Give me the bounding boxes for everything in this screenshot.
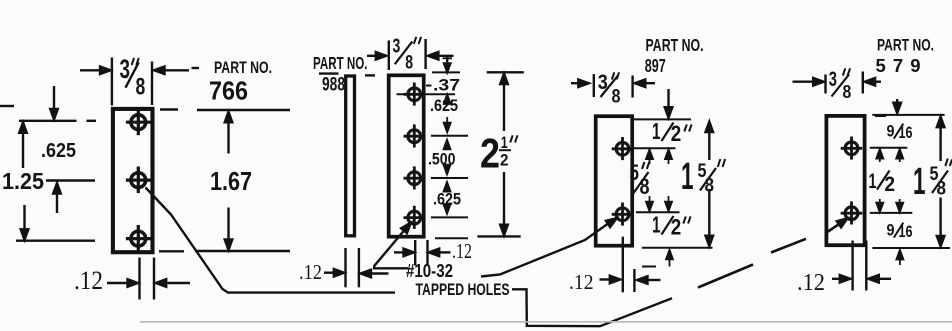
tapped hole 897-1 bbox=[612, 137, 634, 160]
dim 9/16 upper outside arrow bbox=[896, 99, 898, 107]
dim 3/8 right arrow bbox=[437, 55, 454, 57]
dim 3/8 left arrow bbox=[367, 55, 378, 57]
tapped hole 766-2 bbox=[126, 167, 151, 194]
extension dash hole 988-4 bbox=[431, 216, 468, 218]
dim 1.67 bottom extension bbox=[159, 250, 184, 252]
dashed leader segment 2 bbox=[771, 239, 806, 253]
svg-text:1.67: 1.67 bbox=[210, 166, 252, 196]
svg-text:.12: .12 bbox=[299, 260, 322, 284]
dim 3/8 left extension bbox=[388, 41, 390, 71]
svg-text:2: 2 bbox=[885, 172, 896, 196]
tapped hole 579-1 bbox=[841, 137, 863, 160]
svg-text:2: 2 bbox=[500, 152, 509, 170]
dim .12 extension lines below plate 897 bbox=[622, 237, 624, 293]
svg-text:1.25: 1.25 bbox=[2, 168, 44, 194]
dim 3/8 right extension bbox=[631, 76, 633, 98]
svg-text:16: 16 bbox=[899, 222, 913, 241]
plate 579 outline bbox=[826, 116, 864, 245]
dim 1 5/8 vertical arrow line bbox=[708, 130, 710, 160]
extension line hole 897-1 bbox=[629, 147, 676, 149]
svg-text:PART NO.: PART NO. bbox=[877, 37, 934, 55]
dim 1.25 upper arrow bbox=[22, 130, 24, 168]
svg-text:.625: .625 bbox=[430, 97, 458, 115]
plate bottom extension dash bbox=[435, 237, 468, 239]
svg-text:8: 8 bbox=[612, 86, 621, 107]
dim 3/8 right arrow bbox=[163, 69, 189, 71]
svg-text:#10-32: #10-32 bbox=[406, 260, 453, 281]
extension dash hole 988-3 bbox=[431, 177, 468, 179]
svg-text:3: 3 bbox=[829, 68, 837, 91]
svg-text:1: 1 bbox=[681, 156, 694, 198]
dim .625 outside arrow above bbox=[53, 86, 55, 110]
dim .12 extension lines below front plate bbox=[414, 240, 416, 266]
svg-text:PART NO.: PART NO. bbox=[646, 35, 704, 55]
top dash right of plate bbox=[875, 115, 886, 117]
extension line hole 766-2 bbox=[46, 179, 95, 181]
elbow leader from TAPPED HOLES going right and down bbox=[512, 289, 672, 326]
svg-text:1: 1 bbox=[913, 161, 926, 203]
plate top extension line bbox=[432, 71, 460, 73]
dim 2 1/2 vertical arrow line bbox=[503, 81, 505, 131]
top extension line bbox=[872, 114, 944, 116]
dim .625 lower arrows bbox=[444, 183, 450, 192]
dim .625 outside arrow below bbox=[56, 192, 58, 213]
dim 3/8 right arrow bbox=[874, 80, 881, 82]
plate 766 outline bbox=[113, 109, 153, 252]
dim 3/8 right extension line bbox=[151, 62, 153, 106]
svg-text:3: 3 bbox=[393, 35, 401, 58]
dim .12 right arrow bbox=[165, 282, 191, 284]
dim 3/8 right arrow bbox=[644, 82, 655, 84]
arrows below hole1 line bbox=[649, 157, 651, 164]
svg-text:.12: .12 bbox=[797, 270, 825, 296]
plate 988 front view outline bbox=[389, 75, 424, 236]
dim 3/8 left extension bbox=[593, 74, 595, 97]
dim .12 extension lines below strip bbox=[344, 248, 346, 287]
dim 3/8 left extension bbox=[824, 75, 826, 94]
dim 1.25 lower arrow bbox=[23, 205, 25, 232]
extension line hole 579-2 bbox=[870, 212, 913, 214]
bottom extension line bbox=[872, 247, 950, 249]
extension line hole 766-1 bbox=[19, 120, 77, 122]
dim .37 hanging arrow at plate top bbox=[443, 57, 453, 59]
tapped hole 988-3 bbox=[404, 166, 426, 189]
tapped hole 766-3 bbox=[126, 225, 151, 252]
extension dash hole 988-2 bbox=[431, 135, 468, 137]
svg-text:16: 16 bbox=[899, 123, 913, 142]
tapped hole 579-2 bbox=[841, 201, 863, 224]
arrows above hole2 line bbox=[879, 199, 881, 205]
svg-text:PART NO.: PART NO. bbox=[214, 59, 272, 77]
svg-text:8: 8 bbox=[405, 52, 413, 73]
svg-text:.37: .37 bbox=[433, 76, 460, 95]
dim 1.67 vertical arrow line bbox=[227, 120, 229, 154]
dim 3/8 right extension bbox=[424, 39, 426, 69]
dim .12 arrows of front view bbox=[394, 251, 405, 253]
top extension line bbox=[634, 118, 691, 120]
svg-text:TAPPED HOLES: TAPPED HOLES bbox=[416, 280, 510, 299]
dim .12 extension lines below plate 579 bbox=[851, 241, 853, 291]
dim 3/8 trailing dash bbox=[192, 67, 200, 69]
svg-text:8: 8 bbox=[937, 179, 947, 200]
tapped hole 988-1 bbox=[404, 83, 426, 106]
svg-text:988: 988 bbox=[322, 74, 345, 96]
plate 897 outline bbox=[596, 116, 633, 246]
arrows below hole1 line bbox=[879, 157, 881, 163]
tapped hole 988-4 bbox=[404, 206, 426, 229]
svg-text:2: 2 bbox=[671, 121, 682, 146]
dim 2 1/2 bottom extension bbox=[477, 235, 520, 237]
dim 2 1/2 top extension bbox=[487, 71, 524, 73]
svg-text:8: 8 bbox=[640, 174, 650, 199]
svg-text:766: 766 bbox=[209, 76, 248, 106]
top construction dash between views bbox=[365, 74, 375, 76]
bottom faint page line bbox=[140, 321, 952, 323]
svg-text:1: 1 bbox=[869, 169, 877, 193]
strip 988 side view outline bbox=[346, 76, 355, 236]
svg-text:897: 897 bbox=[645, 55, 666, 76]
svg-text:2: 2 bbox=[480, 129, 500, 176]
svg-text:579: 579 bbox=[876, 55, 921, 76]
dim 3/8 left extension line bbox=[111, 58, 113, 106]
top construction dash left of strip 988 bbox=[319, 72, 339, 74]
extension line hole 766-3 bbox=[16, 239, 95, 241]
lower outside arrow below bottom line bbox=[669, 258, 671, 267]
svg-text:1: 1 bbox=[652, 118, 661, 144]
extension line through hole 988-1 bbox=[397, 93, 456, 95]
svg-text:.625: .625 bbox=[41, 140, 76, 162]
leader from TAPPED HOLES to hole 897-2 bbox=[481, 222, 611, 277]
dim 1 5/8 vertical arrow line bbox=[939, 125, 941, 161]
tapped hole 897-2 bbox=[612, 203, 634, 226]
leader line from hole 766-2 to TAPPED HOLES label bbox=[146, 188, 396, 293]
dim .12 arrows of strip bbox=[324, 272, 336, 274]
dim .12 arrows bbox=[600, 278, 612, 280]
dim .12 extension lines below plate 766 bbox=[138, 258, 140, 300]
dim .12 left arrow bbox=[107, 282, 129, 284]
svg-text:5: 5 bbox=[630, 160, 640, 185]
lower outside arrow below bottom line bbox=[899, 258, 901, 265]
dim .12 arrows bbox=[832, 278, 841, 280]
svg-text:8: 8 bbox=[843, 82, 852, 102]
dim .625 upper arrows bbox=[446, 117, 448, 123]
svg-text:8: 8 bbox=[136, 73, 146, 100]
svg-text:8: 8 bbox=[705, 176, 715, 197]
svg-text:.12: .12 bbox=[569, 270, 594, 294]
centerline dash at far left of plate 766 top bbox=[0, 105, 14, 107]
dim .500 arrows bbox=[444, 141, 450, 150]
svg-text:.500: .500 bbox=[428, 150, 456, 168]
dim 1.67 top extension bbox=[160, 108, 178, 110]
svg-text:1: 1 bbox=[652, 211, 661, 237]
dim 1/2 upper outside arrow bbox=[667, 89, 669, 108]
arrows above hole2 line bbox=[649, 196, 651, 203]
leader from #10-32 label to hole 988-4 bbox=[374, 230, 408, 268]
dash before .37 bbox=[426, 85, 432, 87]
dim 3/8 left arrow bbox=[793, 80, 815, 82]
extension line hole 897-2 bbox=[636, 211, 680, 213]
dashed leader segment 1 bbox=[698, 265, 753, 288]
extension line hole 579-1 bbox=[870, 147, 908, 149]
dashed leader final arrow into hole 579-2 bbox=[827, 224, 841, 233]
dim 3/8 right extension bbox=[862, 72, 864, 94]
dim 3/8 left arrow bbox=[80, 69, 102, 71]
tapped hole 766-1 bbox=[126, 109, 151, 136]
dim 3/8 left arrow bbox=[571, 82, 580, 84]
bottom extension line bbox=[642, 247, 713, 249]
svg-text:2: 2 bbox=[671, 215, 682, 240]
svg-text:.12: .12 bbox=[452, 239, 472, 263]
svg-text:.12: .12 bbox=[74, 266, 103, 295]
tapped hole 988-2 bbox=[404, 124, 426, 147]
svg-text:PART NO.: PART NO. bbox=[313, 53, 368, 73]
dim .37 lower arrow bbox=[444, 95, 450, 104]
